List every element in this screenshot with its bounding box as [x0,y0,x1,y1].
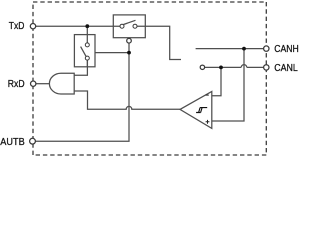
wire CANL rail (hops over plus-input wire) [205,65,264,68]
wire AND gate output to RxD [36,83,50,85]
junction node TxD/S2 [85,24,89,28]
wire S2 bottom pin to AND gate top input [74,60,87,75]
terminal AUTB [30,138,36,144]
wire comparator plus input to CANH node [212,49,244,121]
terminal RxD [31,81,36,86]
svg-text:CANL: CANL [274,63,298,74]
AND gate (mirrored, output left) [49,73,74,94]
S1 left contact [120,24,124,28]
wire S1 bottom pin to control node [128,43,130,53]
junction node CANL tap [219,66,223,70]
wire control line AUTB vertical and horizontal [35,53,129,142]
wire TxD to switch S1 [36,25,122,27]
svg-text:AUTB: AUTB [0,137,25,148]
wire S2 bottom contact pin inside box [86,60,88,67]
S1 open pin circle below box [127,38,132,43]
switch S2 lever [81,47,87,57]
wire S1 output stub to driver (open) [135,26,181,59]
S2 bottom contact [85,56,89,60]
dashed IC boundary box [33,2,266,155]
svg-text:TxD: TxD [9,21,25,32]
terminal TxD [30,24,35,29]
wire comparator minus input to CANL node [212,67,221,95]
switch S1 lever [124,20,136,24]
comparator minus sign [206,94,209,96]
svg-text:CANH: CANH [274,44,299,55]
terminal CANH [264,46,269,51]
junction node CANH tap [242,47,246,51]
wire comparator output to AND gate bottom input (hops control line) [74,91,180,109]
wire S2 output to control node [95,52,129,54]
op-amp comparator triangle [180,92,212,129]
S2 top contact [85,43,89,47]
junction node control [127,51,131,55]
comparator plus sign [206,120,210,124]
wire CANH rail [196,48,264,50]
hysteresis symbol inside comparator [196,108,207,113]
CANL open contact circle [200,65,204,69]
svg-text:RxD: RxD [8,79,25,90]
switch S1 box [113,15,145,38]
S1 right contact [133,24,137,28]
terminal CANL [264,65,269,70]
wire junction to switch S2 top contact [86,26,88,43]
switch S2 box [74,35,95,67]
